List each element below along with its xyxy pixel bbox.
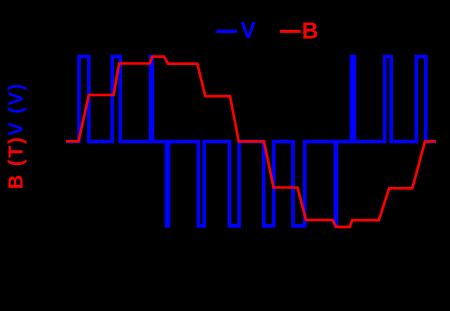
svg-text:B: B bbox=[302, 18, 319, 44]
svg-text:V (V): V (V) bbox=[6, 82, 28, 136]
legend V sample line bbox=[216, 30, 237, 33]
legend B sample line bbox=[280, 30, 301, 33]
svg-text:V: V bbox=[241, 17, 257, 43]
blue trace V (square wave) bbox=[66, 57, 436, 226]
svg-text:B (T): B (T) bbox=[6, 136, 28, 190]
red trace B (staircase flux waveform) bbox=[66, 57, 436, 227]
